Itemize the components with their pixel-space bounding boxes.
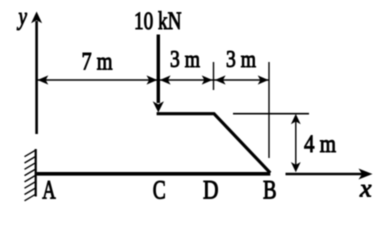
force value label 10kN: [134, 8, 182, 35]
dim arrow left of 3m segment: [160, 75, 171, 84]
x-axis line: [286, 173, 364, 175]
svg-text:4 m: 4 m: [304, 131, 336, 158]
dimension label 3m first: [170, 47, 200, 73]
dim arrow right at C line: [147, 75, 158, 84]
extension line at B: [268, 62, 270, 158]
node label D: [203, 176, 219, 205]
x axis label: [359, 175, 372, 202]
svg-text:C: C: [153, 176, 166, 205]
dim arrow right at B extension: [258, 75, 269, 84]
frame member top horizontal CD and diagonal DB: [157, 114, 271, 173]
y axis label: [16, 4, 27, 31]
dim arrow left at y-axis: [38, 75, 49, 84]
dimension label 4m: [304, 131, 336, 158]
node label C: [153, 176, 166, 205]
x-axis arrowhead: [359, 169, 373, 180]
4m dimension vertical line: [295, 117, 297, 169]
dimension label 3m second: [226, 47, 256, 73]
svg-text:D: D: [203, 176, 219, 205]
dim arrow right at D tick: [202, 75, 213, 84]
node label A: [42, 176, 56, 205]
y-axis stem: [35, 21, 38, 134]
4m top reference line: [233, 113, 309, 115]
wall hatching: [25, 150, 36, 201]
y-axis arrowhead: [31, 12, 42, 24]
svg-text:A: A: [42, 176, 56, 205]
node label B: [263, 176, 277, 205]
svg-text:7 m: 7 m: [82, 49, 113, 76]
svg-text:B: B: [263, 176, 277, 205]
svg-text:3 m: 3 m: [226, 47, 256, 73]
svg-text:3 m: 3 m: [170, 47, 200, 73]
beam AB: [37, 172, 271, 176]
4m up arrowhead: [291, 114, 301, 124]
4m down arrowhead: [291, 162, 301, 172]
force arrowhead: [153, 101, 164, 112]
dimension label 7m: [82, 49, 113, 76]
svg-text:x: x: [359, 175, 372, 202]
svg-text:10 kN: 10 kN: [134, 8, 182, 35]
dim arrow left of second 3m: [215, 75, 226, 84]
svg-text:y: y: [16, 4, 27, 31]
tick at D: [213, 62, 215, 90]
dimension line (horizontal chain): [38, 79, 269, 81]
fixed support wall line: [35, 149, 37, 197]
force arrow stem: [157, 35, 160, 104]
